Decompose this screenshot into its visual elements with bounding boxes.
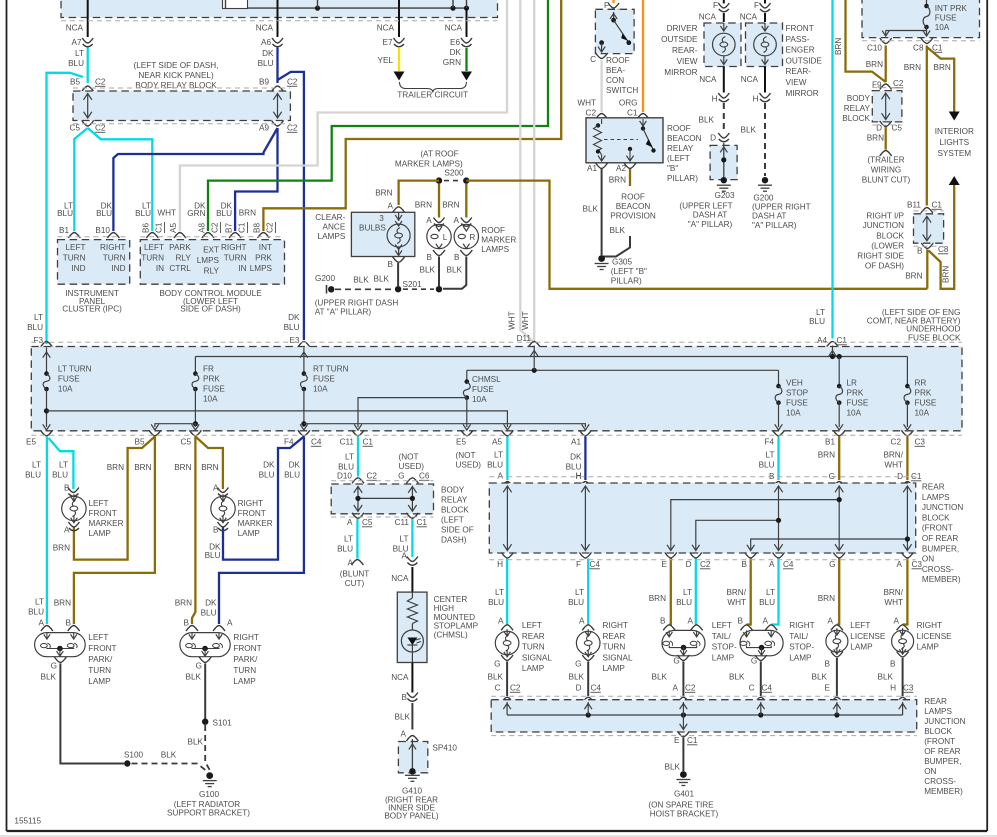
label A bottom relay [347, 518, 353, 527]
svg-text:PILLAR): PILLAR) [667, 174, 698, 183]
label BRN trailer blunt [867, 134, 884, 143]
label B right block [917, 247, 923, 256]
label C5 [70, 124, 81, 133]
svg-text:(TRAILER: (TRAILER [867, 156, 904, 165]
label C5 bottom relay [362, 518, 373, 527]
wire NCA top to F driver mirror [723, 0, 725, 4]
label DRIVER OUTSIDE REAR-VIEW MIRROR [661, 24, 698, 77]
svg-text:BLUNT CUT): BLUNT CUT) [862, 176, 911, 185]
wire BLK right marker to S201 [443, 257, 466, 289]
body relay block box right [872, 91, 902, 122]
svg-text:LAMPS: LAMPS [318, 232, 346, 241]
label C2 BRN WHT D [883, 451, 903, 482]
label DK BLU right marker [205, 543, 221, 561]
label BLK right rear turn [569, 673, 585, 682]
svg-text:G: G [575, 660, 581, 669]
label A7 [71, 38, 81, 47]
label FRONT PASSENGER OUTSIDE REARVIEW MIRROR [786, 24, 823, 98]
label NCA E6 [445, 24, 463, 33]
connector F4 out right [773, 430, 785, 436]
connector face rj1 top [489, 476, 915, 478]
label INTERIOR LIGHTS SYSTEM [935, 127, 974, 158]
svg-text:RIGHT I/P: RIGHT I/P [866, 211, 904, 220]
label LEFT REAR TURN SIGNAL LAMP [522, 621, 552, 673]
svg-text:C1: C1 [837, 336, 848, 345]
svg-text:B11: B11 [907, 201, 921, 210]
svg-text:SUPPORT BRACKET): SUPPORT BRACKET) [167, 809, 250, 818]
label C10 [867, 44, 882, 53]
label BRN A2 [609, 176, 626, 185]
svg-text:C1: C1 [932, 201, 943, 210]
relay coil [594, 119, 606, 161]
label F9 [872, 81, 882, 90]
svg-text:LEFT: LEFT [65, 243, 85, 252]
svg-text:"A" PILLAR): "A" PILLAR) [688, 220, 733, 229]
connector B5 [82, 86, 94, 92]
svg-text:DK: DK [570, 453, 582, 462]
svg-text:ROOF: ROOF [481, 226, 505, 235]
LT TURN output bus [47, 411, 512, 430]
relay actuation dashed line [604, 139, 638, 141]
label A right rear turn [579, 617, 585, 626]
label CHMSL FUSE 10A [472, 375, 501, 404]
FR PRK fuse [192, 357, 199, 427]
connector B5 out [149, 430, 161, 436]
svg-text:LEFT: LEFT [712, 621, 732, 630]
label BRN right park [175, 599, 192, 608]
svg-text:ROOF: ROOF [667, 124, 691, 133]
svg-text:REAR: REAR [924, 697, 947, 706]
svg-text:LT: LT [766, 588, 775, 597]
svg-text:C4: C4 [591, 684, 602, 693]
wire BRN B5 to left marker A [74, 437, 155, 560]
left front park/turn lamp [35, 633, 86, 657]
svg-text:(UPPER RIGHT: (UPPER RIGHT [752, 203, 811, 212]
label BRN left marker lamp [53, 544, 70, 553]
connector H driver [718, 93, 729, 102]
label ROOF BEACON RELAY [667, 124, 702, 183]
svg-text:BLK: BLK [610, 226, 626, 235]
svg-text:CLEAR-: CLEAR- [315, 213, 345, 222]
wire A4 into block [829, 346, 842, 360]
connector A9 [272, 121, 284, 127]
connector A right roof marker [461, 218, 472, 227]
wire DK BLU A6 to B9 [276, 48, 278, 84]
connector G right front park [199, 657, 211, 663]
svg-text:BLU: BLU [27, 323, 43, 332]
svg-text:DK: DK [263, 461, 275, 470]
svg-text:BODY: BODY [441, 486, 465, 495]
pass-through A-H rj1 [503, 486, 511, 551]
label LT BLU right rear turn [568, 588, 584, 607]
svg-text:RIGHT: RIGHT [238, 499, 263, 508]
svg-text:FRONT: FRONT [233, 644, 261, 653]
label DK BLU at B7 [216, 202, 232, 219]
label A left tail [688, 617, 694, 626]
svg-text:B: B [825, 660, 831, 669]
wire BRN WHT to right license A [903, 559, 908, 625]
label E6 [450, 38, 460, 47]
svg-text:RIGHT: RIGHT [603, 621, 628, 630]
svg-text:C4: C4 [762, 684, 773, 693]
svg-text:G: G [398, 472, 404, 481]
label BRN C8 left [904, 63, 921, 72]
connector B11 [921, 208, 933, 214]
label G left tail [673, 657, 679, 666]
G203 internal wire [720, 143, 727, 179]
label A5 LT BLU [487, 451, 503, 470]
label C rj2b [749, 684, 755, 693]
label A1 DK BLU H [566, 453, 582, 482]
svg-text:BRN: BRN [375, 189, 392, 198]
svg-text:BLK: BLK [488, 673, 504, 682]
svg-text:MARKER: MARKER [89, 519, 124, 528]
svg-text:C5: C5 [181, 438, 192, 447]
svg-text:CLUSTER (IPC): CLUSTER (IPC) [62, 304, 122, 313]
label A right roof marker [454, 216, 460, 225]
wire ORG top to F switch [612, 0, 614, 3]
svg-text:A: A [769, 560, 775, 569]
svg-text:INT: INT [259, 243, 272, 252]
label G right park [196, 662, 202, 671]
label BODY RELAY BLOCK right [842, 94, 870, 123]
svg-text:B: B [402, 693, 408, 702]
clearance lamps box [351, 212, 414, 256]
pass-through H-F rj1 [581, 486, 589, 551]
wire BLK left park to S100 [60, 664, 124, 764]
svg-text:FR: FR [203, 365, 214, 374]
label F switch [604, 1, 609, 10]
connector A rj1 bottom [773, 553, 785, 559]
svg-text:C4: C4 [590, 560, 601, 569]
svg-text:(FRONT: (FRONT [922, 524, 953, 533]
svg-text:B6: B6 [142, 223, 151, 233]
svg-text:HOIST BRACKET): HOIST BRACKET) [650, 810, 719, 819]
connector A1 out [579, 430, 591, 436]
svg-text:C: C [590, 55, 596, 64]
label C5 out [181, 438, 192, 447]
label BLK A1 [583, 205, 599, 214]
svg-text:LMPS: LMPS [197, 256, 220, 265]
label LT BLU C11 [338, 453, 354, 472]
svg-text:ON: ON [922, 555, 934, 564]
junction dot E6 [464, 0, 469, 11]
wire BRN interior lights return [929, 185, 955, 289]
label WHT C2 relay [577, 99, 596, 118]
svg-text:DASH AT: DASH AT [752, 212, 786, 221]
label WHT at A5 [157, 209, 176, 218]
CHMSL box [397, 592, 427, 662]
label FR PRK FUSE 10A [203, 365, 225, 404]
rj2 pin E [833, 702, 841, 715]
connector C5 [82, 121, 94, 127]
passenger mirror bulb [754, 23, 777, 65]
svg-text:GRN: GRN [187, 209, 205, 218]
INT PRK fuse [923, 0, 930, 31]
svg-text:DASH AT: DASH AT [693, 211, 727, 220]
svg-text:A: A [579, 617, 585, 626]
connector blunt cut [351, 560, 363, 566]
left front marker lamp [62, 494, 86, 522]
label G right tail [751, 657, 757, 666]
RT TURN fuse [300, 348, 308, 431]
label ROOF MARKER LAMPS [481, 226, 516, 254]
label C2 rotated at A8 [211, 222, 221, 233]
label BLK right marker [447, 266, 463, 275]
underhood fuse block box [31, 347, 962, 431]
svg-text:REAR-: REAR- [786, 67, 812, 76]
label H rj1 top [576, 472, 582, 481]
connector face lines BCM [140, 236, 284, 238]
svg-text:BRN: BRN [201, 463, 218, 472]
connector B left front park [68, 626, 80, 632]
wire NCA chmsl to B [411, 663, 413, 693]
svg-text:TURN: TURN [522, 643, 545, 652]
wire ORG top to relay C1 [642, 0, 644, 112]
svg-text:(NOT: (NOT [399, 453, 419, 462]
wire NCA from top to E6 [466, 8, 468, 37]
connector B left front marker [68, 488, 79, 497]
label INSTRUMENT PANEL CLUSTER [62, 289, 122, 313]
label G203 [715, 191, 735, 200]
svg-text:BLU: BLU [25, 471, 41, 480]
wire BRN S200 to right roof marker [465, 184, 467, 218]
label BRN WHT right tail [726, 588, 746, 607]
svg-text:G410: G410 [402, 787, 422, 796]
wire LT BLU to left tail A [695, 559, 698, 625]
wire BRN C5 to right park lamp B [192, 437, 195, 625]
svg-text:A: A [347, 518, 353, 527]
svg-text:BEACON: BEACON [616, 202, 651, 211]
label C2 at B9 [287, 78, 298, 87]
svg-text:C1: C1 [155, 222, 164, 233]
label DK GRN [443, 48, 462, 67]
svg-text:LAMP: LAMP [238, 529, 261, 538]
svg-text:G100: G100 [199, 790, 219, 799]
svg-text:BLK: BLK [812, 673, 828, 682]
svg-text:LAMPS: LAMPS [922, 493, 950, 502]
label WHT rotated right [521, 311, 530, 330]
svg-text:G: G [829, 560, 835, 569]
svg-text:LAMP: LAMP [712, 654, 735, 663]
connector B8 [257, 233, 269, 239]
svg-text:BRN/: BRN/ [726, 588, 746, 597]
svg-text:NCA: NCA [445, 24, 463, 33]
svg-text:B: B [184, 619, 190, 628]
svg-text:C6: C6 [419, 472, 430, 481]
connector A4 [827, 342, 839, 348]
label LEFT LICENSE LAMP [850, 621, 886, 652]
svg-text:G: G [494, 660, 500, 669]
svg-text:BRN: BRN [866, 60, 883, 69]
svg-text:10A: 10A [847, 409, 862, 418]
svg-text:C11: C11 [395, 518, 410, 527]
label G401 [674, 790, 694, 799]
rj2 pin B [584, 702, 592, 715]
wire BRN S200 to interior bus [466, 181, 927, 289]
svg-text:TURN: TURN [224, 254, 247, 263]
svg-text:F4: F4 [764, 438, 774, 447]
label BLK left park [41, 673, 57, 682]
svg-text:BLU: BLU [284, 323, 300, 332]
label BRN left park [54, 599, 71, 608]
wire BLK dashed passenger to G200 [764, 103, 766, 176]
svg-text:BLU: BLU [676, 598, 692, 607]
svg-text:A: A [688, 617, 694, 626]
right I/P junction block box [914, 214, 944, 243]
svg-text:C5: C5 [362, 518, 373, 527]
svg-text:BLOCK: BLOCK [876, 231, 904, 240]
svg-text:DK: DK [205, 599, 217, 608]
relay switch contact [626, 119, 655, 161]
label LEFT TURN IN [141, 243, 164, 273]
ground G410 [405, 775, 420, 781]
connector C5 out [189, 430, 201, 436]
wire NCA into passenger mirror [764, 13, 766, 22]
label BLK left marker [420, 266, 436, 275]
svg-text:FUSE: FUSE [915, 399, 937, 408]
label A rj2 [673, 684, 679, 693]
label B left marker [427, 253, 433, 262]
label NCA driver bottom [699, 75, 717, 84]
connector D rj1 [901, 482, 913, 488]
svg-text:BLU: BLU [337, 545, 353, 554]
svg-text:BLK: BLK [161, 751, 177, 760]
label RIGHT TAIL STOP LAMP [789, 621, 814, 663]
G203 junction box [710, 145, 737, 179]
svg-text:A5: A5 [169, 223, 178, 233]
label DK BLU right park [201, 599, 217, 618]
CHMSL output to C11 [354, 398, 467, 430]
svg-text:C2: C2 [367, 472, 378, 481]
arrow interior lights down [949, 112, 960, 121]
wire LT BLU C5 to B1 [74, 128, 87, 231]
svg-text:RIGHT: RIGHT [221, 243, 246, 252]
svg-text:LICENSE: LICENSE [850, 632, 886, 641]
label RIGHT TURN IND [100, 243, 126, 273]
label LT BLU chmsl [393, 535, 409, 554]
svg-text:A: A [897, 560, 903, 569]
ground G305 [595, 255, 609, 269]
bottom hairline [0, 835, 997, 837]
wire BLK A1 to G305 [601, 169, 603, 255]
svg-text:BLOCK: BLOCK [441, 506, 469, 515]
svg-text:BRN: BRN [53, 544, 70, 553]
svg-text:A8: A8 [198, 223, 207, 233]
label LEFT RADIATOR SUPPORT BRACKET [167, 800, 250, 818]
label A blunt [348, 559, 354, 568]
label S201 [403, 280, 423, 289]
svg-text:FRONT: FRONT [238, 509, 266, 518]
wire LT BLU to right rear turn [587, 559, 589, 625]
label S100 [124, 751, 144, 760]
label F driver [713, 1, 718, 10]
connector B clearance lamps [393, 257, 405, 263]
svg-text:C3: C3 [903, 684, 914, 693]
svg-text:E6: E6 [450, 38, 460, 47]
left rear turn signal lamp [495, 629, 519, 657]
svg-text:FUSE: FUSE [313, 375, 335, 384]
svg-text:A: A [227, 619, 233, 628]
connector B1 out [833, 430, 845, 436]
svg-text:RIGHT: RIGHT [917, 621, 942, 630]
connector E5 out [41, 430, 53, 436]
wire LT BLU to right tail A [771, 559, 778, 625]
connector H passenger [760, 93, 771, 102]
label BLK clearance [374, 275, 390, 284]
svg-text:TURN: TURN [63, 254, 86, 263]
wire BRN to left tail B [669, 559, 671, 625]
label PARK RLY CTRL [169, 243, 191, 273]
svg-text:(UPPER RIGHT DASH: (UPPER RIGHT DASH [315, 299, 399, 308]
svg-text:FUSE: FUSE [847, 399, 869, 408]
connector A2 rj1 bottom [901, 553, 913, 559]
svg-text:DK: DK [288, 313, 300, 322]
svg-text:RELAY: RELAY [844, 104, 871, 113]
svg-text:LAMP: LAMP [233, 677, 256, 686]
connector A2 [624, 163, 636, 169]
svg-text:H: H [576, 472, 582, 481]
left license lamp [826, 628, 848, 654]
label BLK left license [812, 673, 828, 682]
svg-text:F3: F3 [33, 336, 43, 345]
label BRN B5 left [107, 463, 124, 472]
svg-text:BLU: BLU [568, 598, 584, 607]
label C2 at F9 [893, 79, 904, 88]
svg-text:PRK: PRK [915, 389, 932, 398]
label LT BLU E5 left [25, 461, 41, 480]
svg-text:B1: B1 [825, 438, 835, 447]
label LT BLU blunt [337, 535, 353, 554]
label A clearance [388, 202, 394, 211]
label C8 at B [938, 245, 949, 254]
label TRAILER WIRING BLUNT CUT [862, 156, 911, 185]
svg-text:FRONT: FRONT [89, 509, 117, 518]
svg-text:ENGER: ENGER [786, 46, 815, 55]
wire LT BLU E5 to left marker B [49, 438, 74, 489]
label A1 [587, 164, 597, 173]
connector A left rear turn [501, 625, 513, 631]
connector A right license [897, 625, 909, 631]
svg-text:TAIL/: TAIL/ [712, 632, 732, 641]
svg-text:RIGHT: RIGHT [233, 633, 258, 642]
svg-text:G401: G401 [674, 790, 694, 799]
svg-text:IND: IND [111, 264, 125, 273]
svg-text:LAMP: LAMP [522, 664, 545, 673]
connector A clearance lamps [393, 207, 405, 213]
label NCA A6 [256, 24, 274, 33]
svg-text:NCA: NCA [256, 24, 274, 33]
connector B1 [68, 233, 80, 239]
svg-text:BRN/: BRN/ [883, 451, 903, 460]
label BLK left tail [652, 673, 668, 682]
label NOT USED G [399, 453, 425, 472]
svg-text:NCA: NCA [699, 13, 717, 22]
label RIGHT FRONT MARKER LAMP [238, 499, 273, 538]
svg-text:S201: S201 [403, 280, 423, 289]
SP410 box [398, 742, 427, 773]
label BLK chmsl [395, 713, 411, 722]
wire NCA from top to E7 [398, 0, 400, 37]
label ORG C1 relay [619, 99, 638, 118]
svg-text:A4: A4 [817, 336, 827, 345]
svg-text:TURN: TURN [233, 666, 256, 675]
svg-text:B10: B10 [95, 226, 110, 235]
connector B right tail [741, 625, 753, 631]
pass-through F9-D [882, 93, 890, 120]
svg-text:A: A [673, 684, 679, 693]
label C4 at F [590, 560, 601, 569]
